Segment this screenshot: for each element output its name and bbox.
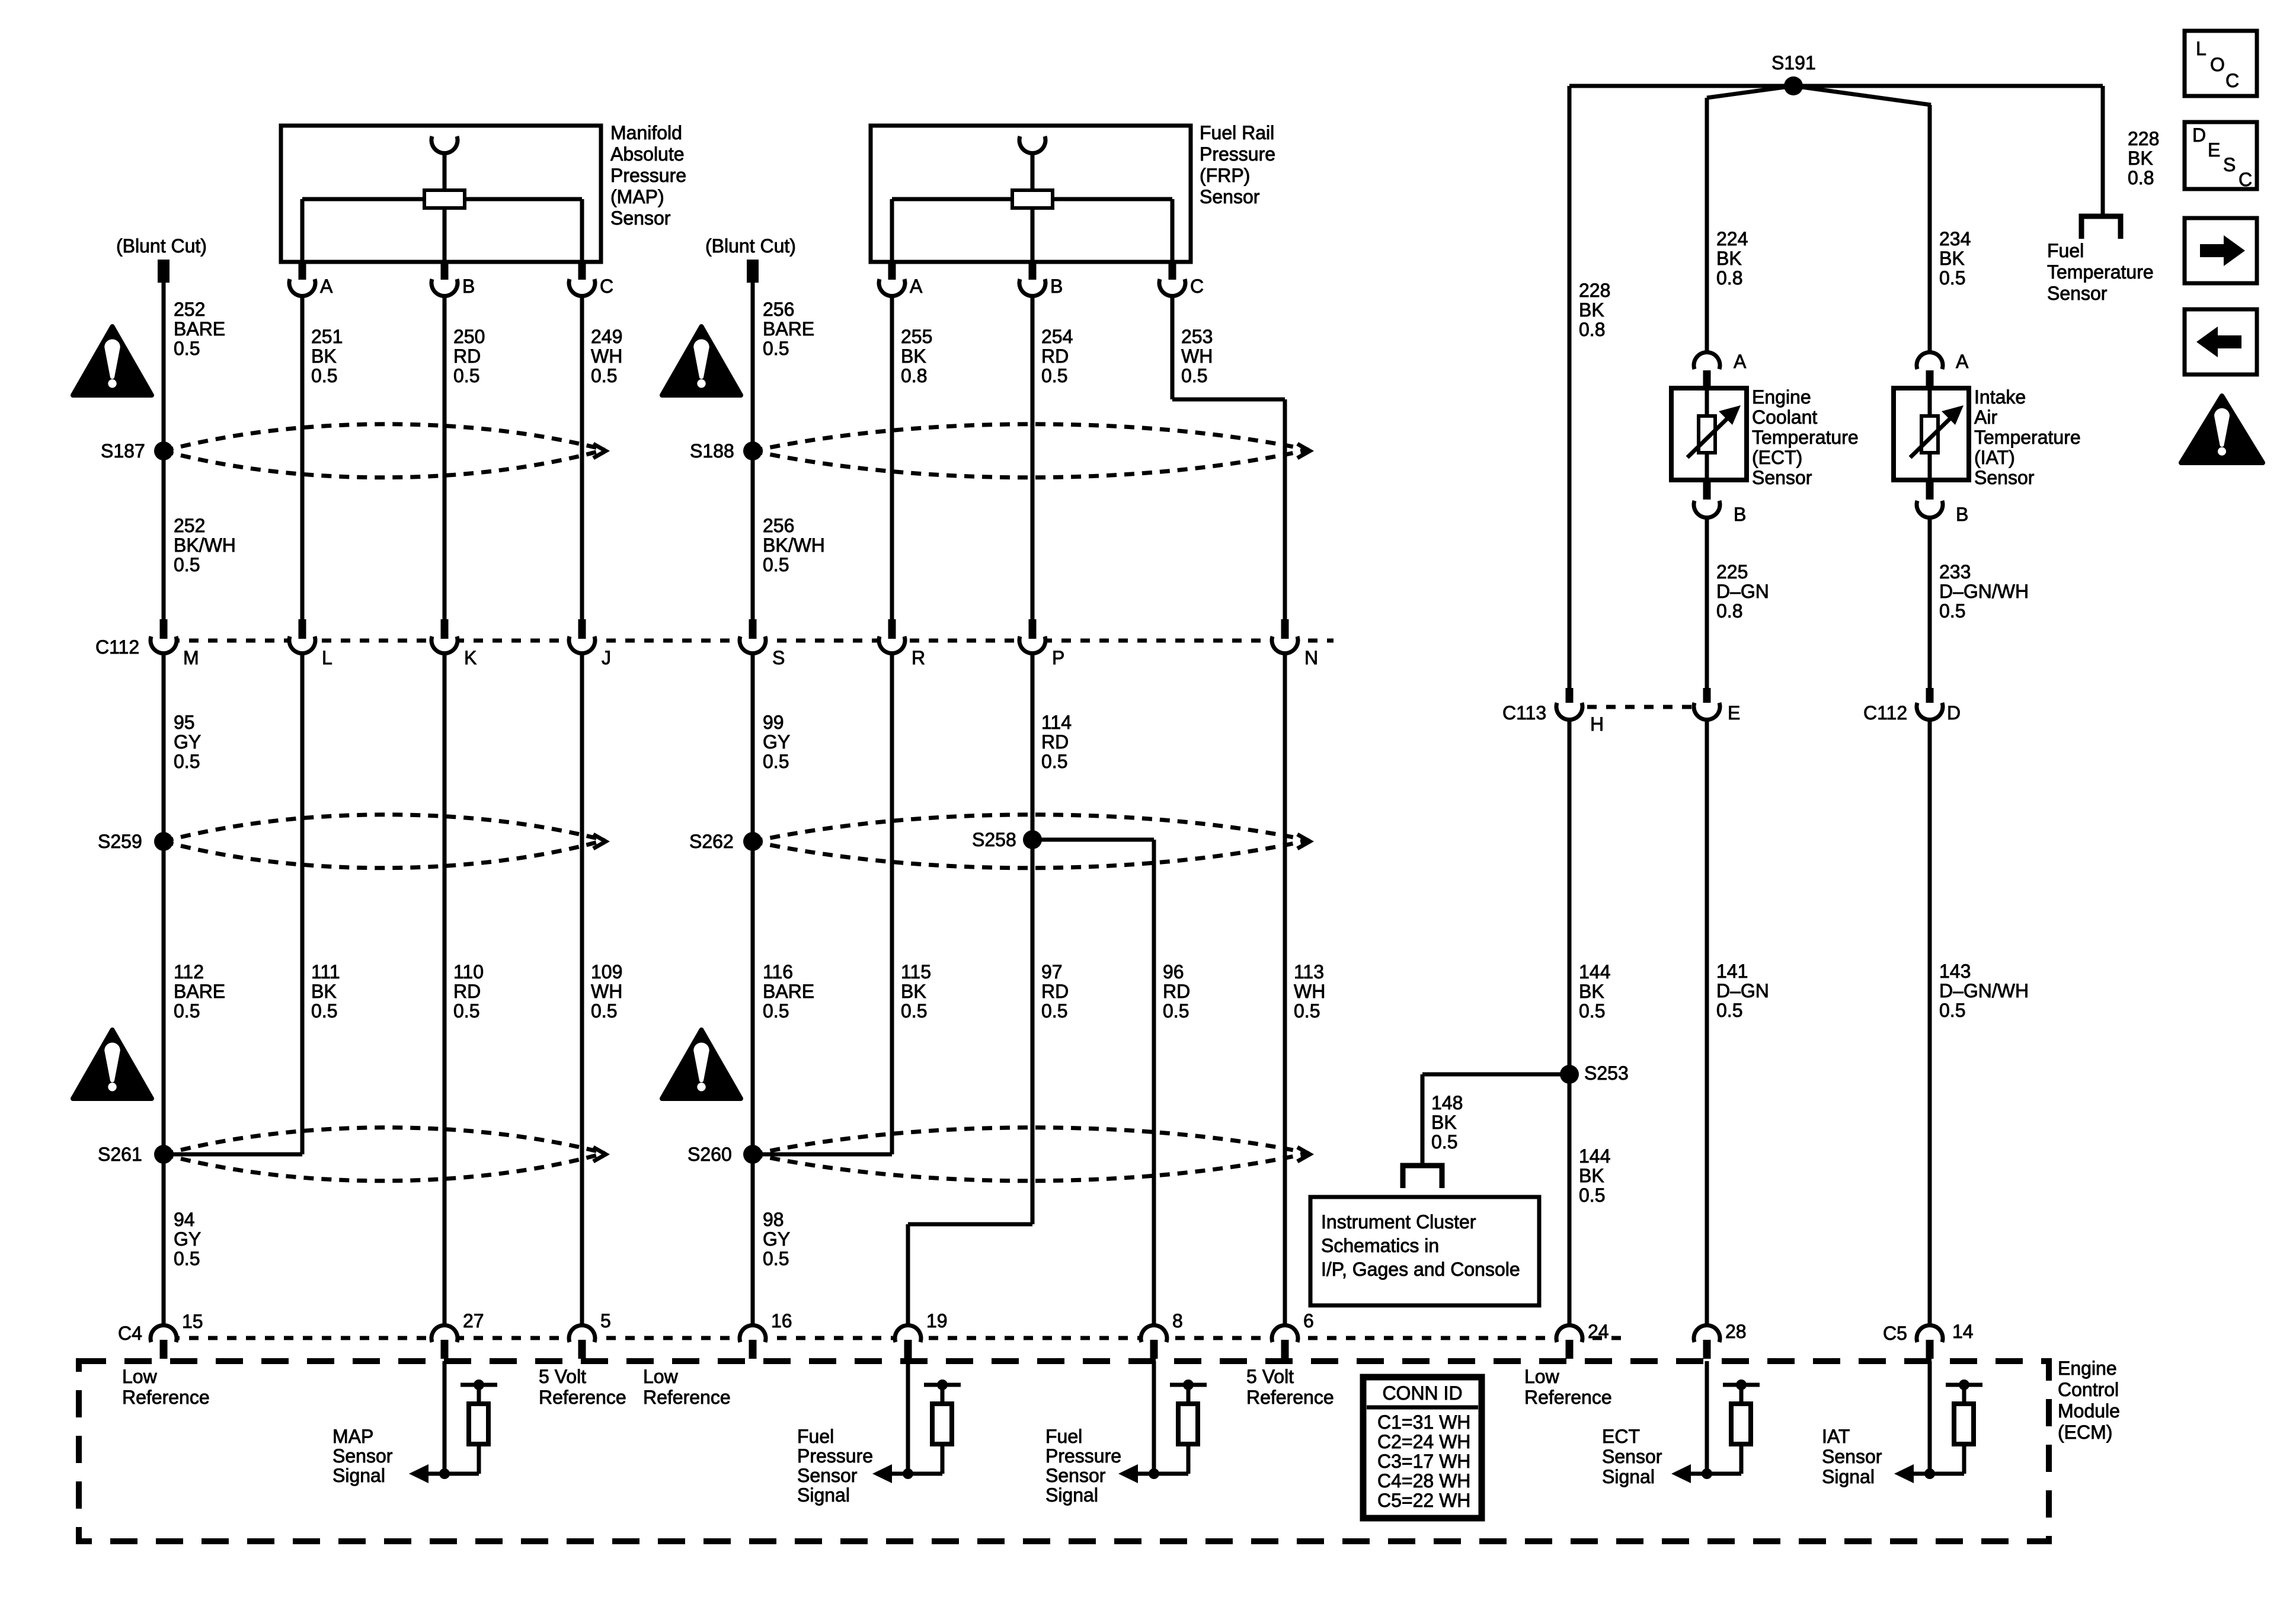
svg-text:GY: GY: [763, 1228, 790, 1250]
svg-text:0.5: 0.5: [1939, 600, 1965, 622]
svg-text:S253: S253: [1584, 1062, 1629, 1084]
svg-text:228: 228: [1579, 280, 1610, 301]
svg-text:BK: BK: [901, 345, 926, 367]
svg-text:S: S: [2223, 154, 2236, 175]
svg-text:A: A: [320, 276, 333, 297]
svg-text:0.8: 0.8: [1716, 600, 1742, 622]
svg-text:251: 251: [311, 326, 343, 347]
svg-text:0.5: 0.5: [1181, 365, 1207, 386]
svg-text:Temperature: Temperature: [1974, 427, 2081, 448]
svg-text:S261: S261: [98, 1144, 142, 1165]
svg-text:C3=17 WH: C3=17 WH: [1377, 1451, 1470, 1472]
svg-text:BARE: BARE: [763, 318, 814, 340]
svg-text:D–GN: D–GN: [1716, 980, 1769, 1001]
svg-text:256: 256: [763, 515, 794, 536]
svg-text:5: 5: [600, 1310, 611, 1331]
svg-text:I/P, Gages and Console: I/P, Gages and Console: [1321, 1259, 1520, 1280]
svg-text:C4: C4: [118, 1323, 142, 1344]
svg-text:GY: GY: [174, 731, 201, 753]
svg-text:0.8: 0.8: [1579, 319, 1605, 340]
svg-text:Sensor: Sensor: [1200, 186, 1260, 207]
svg-text:BARE: BARE: [763, 981, 814, 1002]
svg-text:RD: RD: [453, 345, 481, 367]
svg-text:L: L: [2196, 38, 2207, 59]
svg-text:8: 8: [1172, 1310, 1183, 1331]
svg-text:Air: Air: [1974, 406, 1997, 428]
svg-text:BK: BK: [1579, 981, 1604, 1002]
svg-text:Absolute: Absolute: [610, 143, 685, 165]
svg-text:BK/WH: BK/WH: [763, 534, 825, 556]
svg-text:C: C: [2225, 70, 2239, 91]
svg-text:96: 96: [1163, 961, 1184, 982]
svg-text:144: 144: [1579, 1145, 1610, 1167]
svg-text:Low: Low: [122, 1366, 158, 1387]
svg-text:Engine: Engine: [2058, 1358, 2117, 1379]
svg-text:0.5: 0.5: [174, 338, 200, 359]
svg-text:M: M: [183, 647, 199, 668]
svg-text:(FRP): (FRP): [1200, 165, 1250, 186]
svg-text:BARE: BARE: [174, 318, 225, 340]
svg-text:S258: S258: [972, 829, 1016, 850]
svg-text:Intake: Intake: [1974, 386, 2026, 408]
svg-text:BK: BK: [2128, 148, 2153, 169]
svg-text:J: J: [602, 647, 611, 668]
svg-text:0.5: 0.5: [763, 554, 789, 575]
svg-text:224: 224: [1716, 228, 1748, 249]
svg-text:233: 233: [1939, 561, 1971, 582]
svg-text:D–GN/WH: D–GN/WH: [1939, 581, 2029, 602]
svg-text:0.5: 0.5: [763, 1248, 789, 1269]
svg-text:Signal: Signal: [1822, 1466, 1875, 1487]
svg-text:256: 256: [763, 299, 794, 320]
svg-text:0.5: 0.5: [1431, 1131, 1457, 1153]
svg-text:MAP: MAP: [332, 1426, 373, 1447]
svg-text:IAT: IAT: [1822, 1426, 1850, 1447]
svg-text:(MAP): (MAP): [610, 186, 664, 207]
svg-text:234: 234: [1939, 228, 1971, 249]
svg-text:BK: BK: [1579, 299, 1604, 321]
svg-text:C2=24 WH: C2=24 WH: [1377, 1431, 1470, 1452]
svg-text:Sensor: Sensor: [1822, 1446, 1882, 1467]
svg-text:0.5: 0.5: [763, 751, 789, 772]
svg-text:L: L: [322, 647, 332, 668]
svg-text:0.5: 0.5: [1041, 1000, 1067, 1022]
svg-text:A: A: [910, 276, 923, 297]
svg-text:0.5: 0.5: [1939, 1000, 1965, 1021]
svg-text:Fuel Rail: Fuel Rail: [1200, 122, 1274, 143]
svg-text:Temperature: Temperature: [2047, 261, 2154, 283]
svg-text:0.8: 0.8: [1716, 267, 1742, 289]
svg-text:0.5: 0.5: [174, 1248, 200, 1269]
svg-text:141: 141: [1716, 961, 1748, 982]
svg-text:C4=28 WH: C4=28 WH: [1377, 1470, 1470, 1491]
svg-text:RD: RD: [1041, 981, 1069, 1002]
svg-text:WH: WH: [591, 981, 622, 1002]
svg-text:ECT: ECT: [1602, 1426, 1640, 1447]
svg-text:252: 252: [174, 299, 205, 320]
svg-text:6: 6: [1303, 1310, 1314, 1331]
svg-text:(Blunt Cut): (Blunt Cut): [705, 235, 796, 257]
svg-text:Fuel: Fuel: [1045, 1426, 1082, 1447]
svg-text:16: 16: [771, 1310, 792, 1331]
svg-text:112: 112: [174, 961, 204, 982]
svg-text:27: 27: [463, 1310, 484, 1331]
svg-text:(Blunt Cut): (Blunt Cut): [116, 235, 207, 257]
svg-text:Sensor: Sensor: [1974, 467, 2035, 488]
svg-text:Control: Control: [2058, 1379, 2119, 1400]
svg-text:E: E: [2208, 139, 2220, 161]
svg-text:K: K: [464, 647, 477, 668]
svg-text:0.5: 0.5: [1041, 365, 1067, 386]
svg-text:0.5: 0.5: [1163, 1000, 1189, 1022]
svg-text:109: 109: [591, 961, 622, 982]
svg-text:RD: RD: [1041, 731, 1069, 753]
svg-text:C112: C112: [95, 636, 139, 658]
svg-text:0.8: 0.8: [2128, 167, 2154, 188]
svg-text:Pressure: Pressure: [610, 165, 686, 186]
svg-text:WH: WH: [1294, 981, 1325, 1002]
svg-text:5 Volt: 5 Volt: [539, 1366, 586, 1387]
svg-text:C: C: [600, 276, 613, 297]
svg-text:Sensor: Sensor: [332, 1445, 393, 1467]
svg-text:24: 24: [1588, 1321, 1609, 1342]
svg-text:Sensor: Sensor: [610, 207, 671, 229]
svg-text:0.5: 0.5: [1939, 267, 1965, 289]
svg-text:110: 110: [453, 961, 484, 982]
svg-text:D–GN: D–GN: [1716, 581, 1769, 602]
svg-text:GY: GY: [763, 731, 790, 753]
svg-text:252: 252: [174, 515, 205, 536]
svg-text:S191: S191: [1771, 52, 1816, 73]
svg-text:0.5: 0.5: [311, 365, 337, 386]
svg-text:B: B: [1734, 504, 1746, 525]
svg-text:Engine: Engine: [1752, 386, 1811, 408]
svg-text:C5: C5: [1883, 1323, 1907, 1344]
svg-text:Sensor: Sensor: [1752, 467, 1812, 488]
svg-text:S259: S259: [98, 831, 142, 852]
svg-text:Sensor: Sensor: [2047, 283, 2108, 304]
svg-text:Fuel: Fuel: [2047, 240, 2084, 261]
svg-text:H: H: [1590, 713, 1604, 735]
svg-text:Low: Low: [1524, 1366, 1560, 1387]
svg-text:98: 98: [763, 1209, 784, 1230]
svg-text:0.5: 0.5: [453, 365, 479, 386]
svg-text:Manifold: Manifold: [610, 122, 682, 143]
svg-text:0.5: 0.5: [1579, 1185, 1605, 1206]
svg-text:Reference: Reference: [122, 1387, 210, 1408]
svg-text:0.5: 0.5: [763, 338, 789, 359]
svg-text:0.5: 0.5: [1716, 1000, 1742, 1021]
svg-text:Pressure: Pressure: [1045, 1445, 1121, 1467]
svg-text:225: 225: [1716, 561, 1748, 582]
svg-text:B: B: [1956, 504, 1968, 525]
svg-text:C5=22 WH: C5=22 WH: [1377, 1490, 1470, 1511]
svg-text:Signal: Signal: [1045, 1484, 1098, 1506]
svg-text:GY: GY: [174, 1228, 201, 1250]
svg-text:Sensor: Sensor: [1045, 1465, 1106, 1486]
svg-text:RD: RD: [1041, 345, 1069, 367]
svg-text:BK: BK: [901, 981, 926, 1002]
svg-text:0.5: 0.5: [763, 1000, 789, 1022]
svg-text:BARE: BARE: [174, 981, 225, 1002]
svg-text:Pressure: Pressure: [797, 1445, 873, 1467]
svg-text:Signal: Signal: [332, 1465, 385, 1486]
svg-text:143: 143: [1939, 961, 1971, 982]
svg-text:Reference: Reference: [539, 1387, 626, 1408]
svg-text:111: 111: [311, 961, 340, 982]
svg-text:0.8: 0.8: [901, 365, 927, 386]
svg-text:E: E: [1728, 702, 1740, 724]
svg-text:D: D: [2192, 124, 2206, 146]
svg-text:14: 14: [1952, 1321, 1974, 1342]
svg-text:Signal: Signal: [797, 1484, 850, 1506]
svg-text:Temperature: Temperature: [1752, 427, 1859, 448]
svg-text:BK: BK: [1716, 248, 1742, 269]
svg-text:S188: S188: [690, 440, 734, 462]
svg-text:254: 254: [1041, 326, 1073, 347]
svg-text:15: 15: [182, 1311, 203, 1332]
svg-text:S: S: [772, 647, 785, 668]
svg-text:228: 228: [2128, 128, 2159, 149]
svg-text:WH: WH: [1181, 345, 1213, 367]
svg-text:0.5: 0.5: [311, 1000, 337, 1022]
svg-text:253: 253: [1181, 326, 1213, 347]
svg-text:BK/WH: BK/WH: [174, 534, 236, 556]
svg-text:115: 115: [901, 961, 931, 982]
svg-text:(IAT): (IAT): [1974, 447, 2015, 468]
svg-text:BK: BK: [1939, 248, 1965, 269]
svg-text:95: 95: [174, 712, 195, 733]
svg-text:0.5: 0.5: [453, 1000, 479, 1022]
svg-text:19: 19: [926, 1310, 948, 1331]
svg-text:S187: S187: [101, 440, 145, 462]
svg-text:B: B: [1050, 276, 1063, 297]
svg-text:5 Volt: 5 Volt: [1246, 1366, 1294, 1387]
svg-text:113: 113: [1294, 961, 1324, 982]
svg-text:0.5: 0.5: [1041, 751, 1067, 772]
svg-text:S260: S260: [687, 1144, 732, 1165]
svg-text:Schematics in: Schematics in: [1321, 1235, 1439, 1256]
svg-text:0.5: 0.5: [901, 1000, 927, 1022]
svg-text:(ECM): (ECM): [2058, 1422, 2112, 1443]
svg-text:C: C: [2239, 169, 2252, 190]
svg-text:B: B: [462, 276, 475, 297]
svg-text:99: 99: [763, 712, 784, 733]
svg-text:Fuel: Fuel: [797, 1426, 834, 1447]
svg-text:0.5: 0.5: [174, 1000, 200, 1022]
svg-text:(ECT): (ECT): [1752, 447, 1802, 468]
svg-text:C113: C113: [1502, 702, 1546, 724]
svg-text:RD: RD: [1163, 981, 1190, 1002]
svg-text:N: N: [1304, 647, 1318, 668]
svg-text:C112: C112: [1863, 702, 1907, 724]
svg-text:94: 94: [174, 1209, 195, 1230]
svg-text:S262: S262: [689, 831, 734, 852]
svg-text:Instrument Cluster: Instrument Cluster: [1321, 1211, 1476, 1233]
svg-text:P: P: [1052, 647, 1064, 668]
svg-text:255: 255: [901, 326, 932, 347]
svg-text:CONN ID: CONN ID: [1382, 1382, 1462, 1404]
svg-text:0.5: 0.5: [591, 1000, 617, 1022]
svg-text:114: 114: [1041, 712, 1072, 733]
svg-text:O: O: [2210, 54, 2225, 75]
svg-text:0.5: 0.5: [174, 554, 200, 575]
svg-text:C: C: [1190, 276, 1204, 297]
svg-text:BK: BK: [311, 981, 337, 1002]
svg-text:BK: BK: [311, 345, 337, 367]
svg-text:0.5: 0.5: [1294, 1000, 1320, 1022]
svg-text:0.5: 0.5: [174, 751, 200, 772]
svg-text:Module: Module: [2058, 1400, 2120, 1422]
svg-text:97: 97: [1041, 961, 1063, 982]
svg-text:Sensor: Sensor: [1602, 1446, 1662, 1467]
svg-text:Reference: Reference: [1524, 1387, 1612, 1408]
svg-text:Pressure: Pressure: [1200, 143, 1275, 165]
svg-text:R: R: [912, 647, 925, 668]
svg-text:A: A: [1956, 351, 1969, 372]
svg-text:Sensor: Sensor: [797, 1465, 858, 1486]
svg-text:RD: RD: [453, 981, 481, 1002]
svg-text:0.5: 0.5: [1579, 1000, 1605, 1022]
svg-text:Reference: Reference: [1246, 1387, 1334, 1408]
svg-text:C1=31 WH: C1=31 WH: [1377, 1411, 1470, 1433]
svg-text:WH: WH: [591, 345, 622, 367]
svg-text:BK: BK: [1579, 1165, 1604, 1186]
svg-text:Reference: Reference: [643, 1387, 731, 1408]
svg-text:148: 148: [1431, 1092, 1463, 1113]
svg-text:A: A: [1734, 351, 1747, 372]
svg-text:Coolant: Coolant: [1752, 406, 1817, 428]
svg-text:116: 116: [763, 961, 793, 982]
svg-text:250: 250: [453, 326, 485, 347]
svg-text:D: D: [1947, 702, 1961, 724]
svg-text:Low: Low: [643, 1366, 679, 1387]
svg-text:144: 144: [1579, 961, 1610, 982]
svg-text:0.5: 0.5: [591, 365, 617, 386]
svg-text:249: 249: [591, 326, 622, 347]
svg-text:BK: BK: [1431, 1112, 1457, 1133]
svg-text:Signal: Signal: [1602, 1466, 1655, 1487]
svg-text:D–GN/WH: D–GN/WH: [1939, 980, 2029, 1001]
svg-text:28: 28: [1725, 1321, 1747, 1342]
